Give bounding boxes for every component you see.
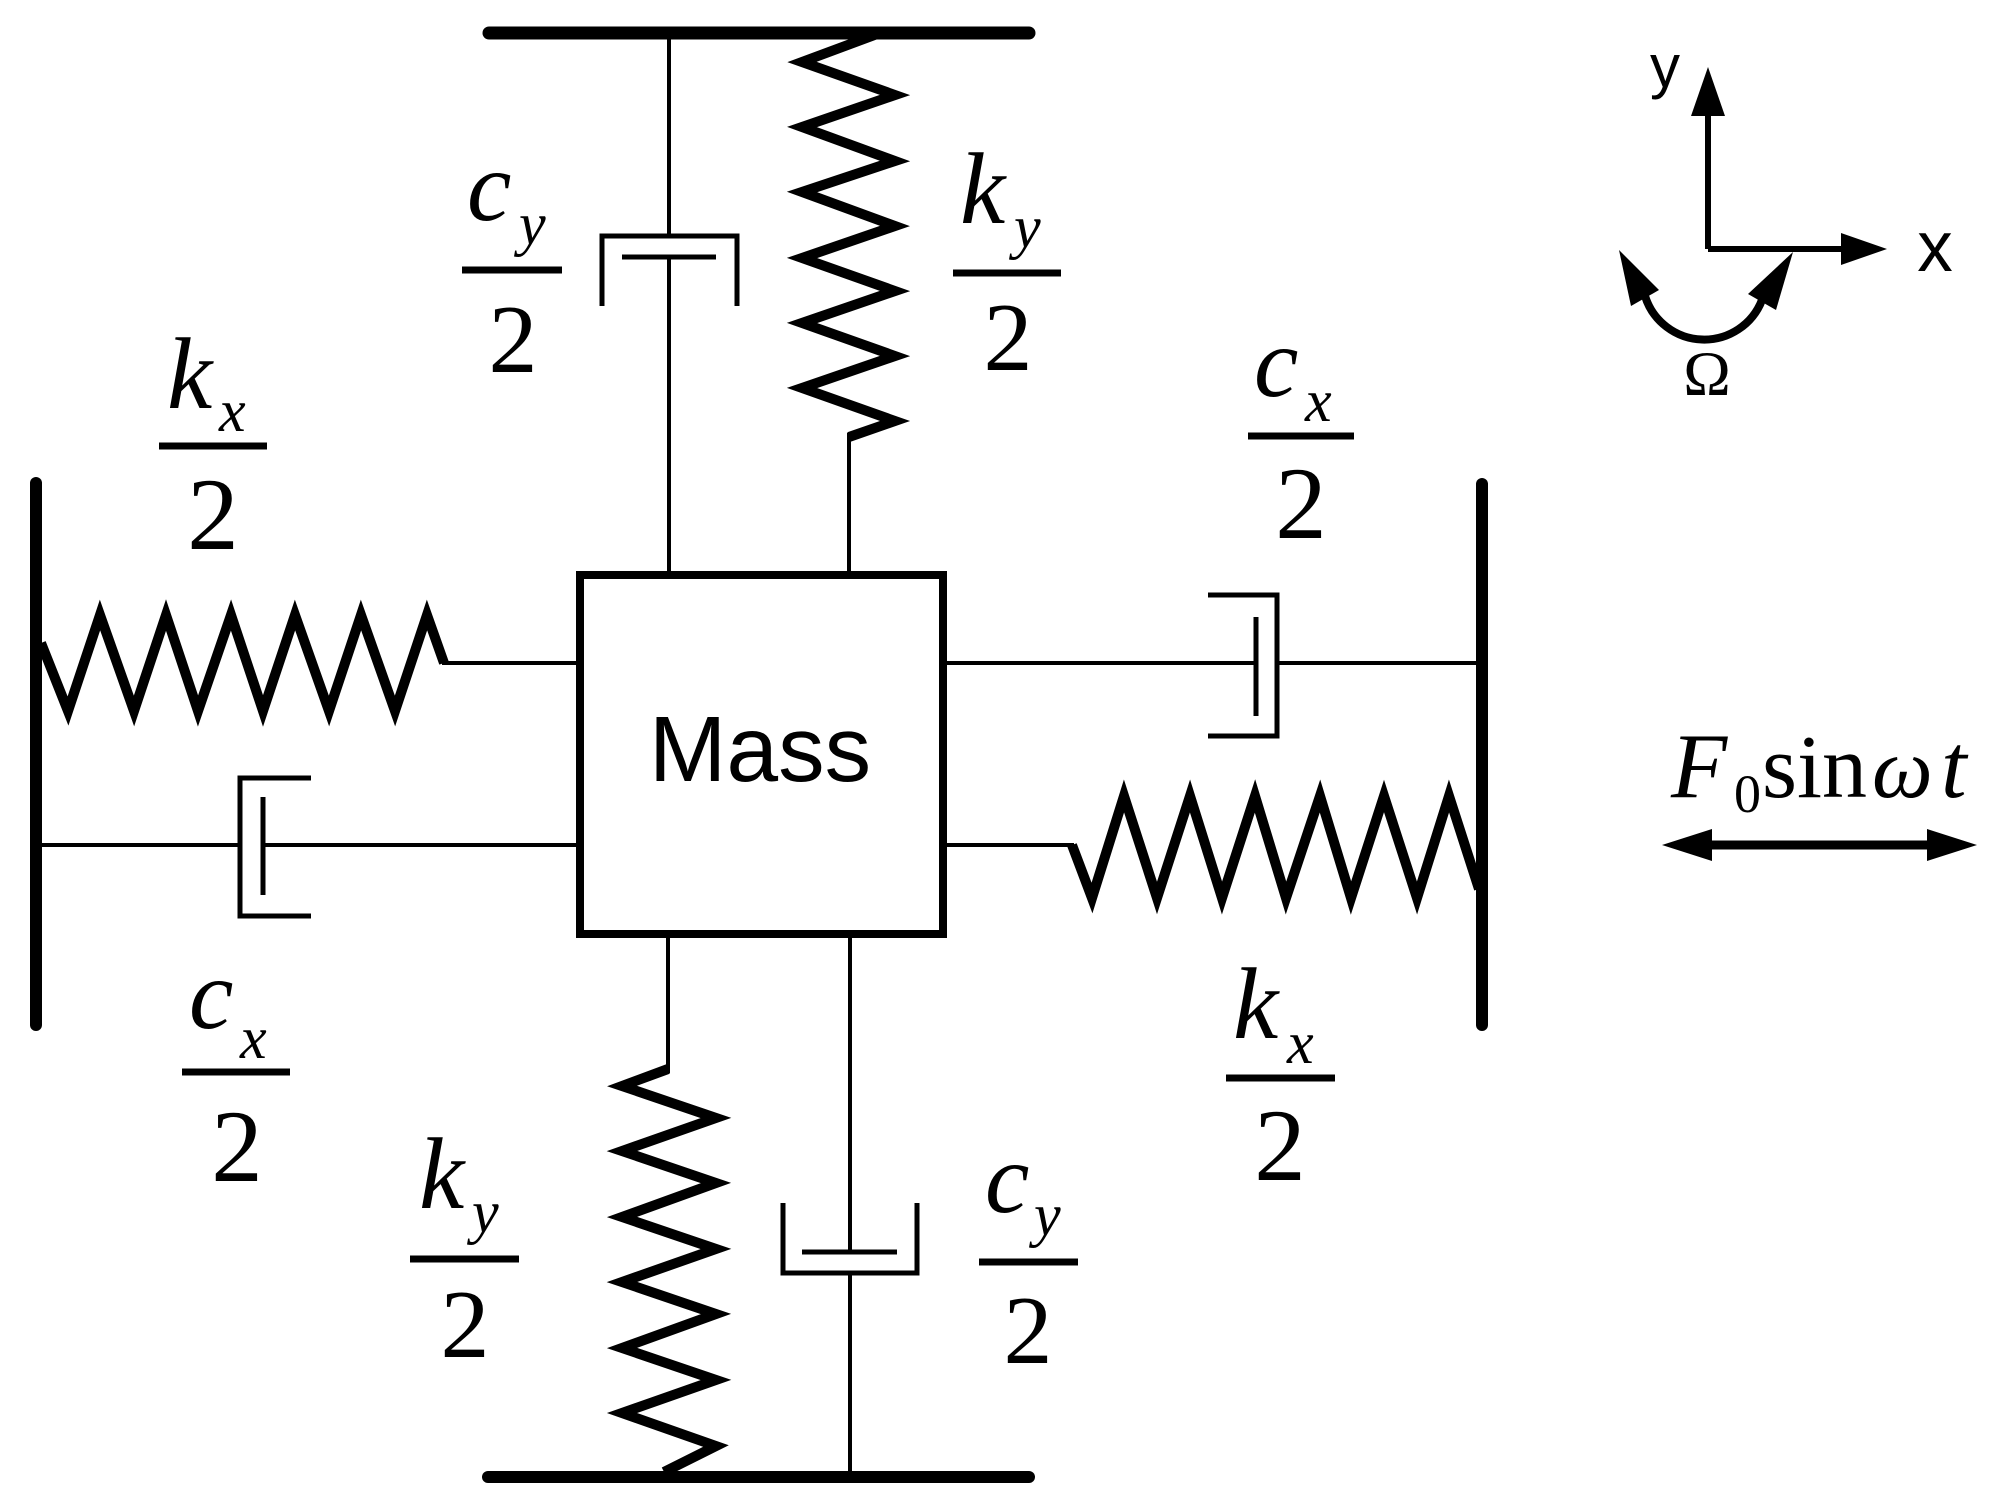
- wire: top wall to damper Cy/2 cup: [667, 36, 671, 238]
- wire: damper C1 piston rod to mass: [667, 257, 671, 575]
- svg-text:c: c: [467, 131, 511, 242]
- axis y arrow: [1705, 112, 1711, 249]
- wire: spring K2 to mass: [442, 661, 580, 665]
- wire: spring K1 to mass: [847, 433, 851, 575]
- axis x arrow: [1708, 246, 1845, 252]
- label cx/2 bottom-left: fraction bar: [182, 1069, 290, 1076]
- svg-text:k: k: [1233, 948, 1280, 1061]
- label ky/2 bottom: fraction bar: [410, 1256, 519, 1263]
- svg-text:2: 2: [489, 286, 538, 394]
- wire: damper C2 piston to mass: [263, 843, 580, 847]
- damper C1 (cy/2 top) cup: [602, 236, 737, 306]
- damper C2 piston plate: [261, 797, 266, 895]
- svg-text:2: 2: [187, 458, 239, 572]
- spring K4 zigzag: [622, 1069, 716, 1472]
- svg-text:c: c: [985, 1123, 1029, 1234]
- svg-text:c: c: [189, 939, 233, 1050]
- damper C4 piston plate: [802, 1250, 897, 1255]
- svg-text:x: x: [1304, 368, 1332, 434]
- force double arrow: [1700, 841, 1940, 850]
- svg-text:k: k: [167, 318, 214, 431]
- svg-text:2: 2: [984, 284, 1033, 392]
- damper C1 piston plate: [622, 255, 716, 260]
- spring K3 zigzag: [1072, 796, 1479, 898]
- wire: left wall to damper C2 (cx/2 left) cup: [36, 843, 240, 847]
- damper C3 cup: [1208, 595, 1277, 736]
- damper C4 cup: [783, 1203, 917, 1273]
- svg-text:k: k: [419, 1118, 466, 1231]
- svg-text:Mass: Mass: [649, 697, 871, 801]
- wire: damper C3 cup to right wall: [1277, 661, 1480, 665]
- svg-text:2: 2: [1254, 1089, 1306, 1203]
- spring K2 (kx/2 left) zigzag: [41, 615, 444, 711]
- wire: mass to spring K3 (kx/2 right): [943, 843, 1074, 847]
- wire: mass to damper C4 (cy/2 bottom) piston: [848, 934, 852, 1252]
- wall bottom: [488, 1471, 1029, 1483]
- wire: mass to damper C3 (cx/2 right) piston: [943, 661, 1256, 665]
- wire: damper C4 cup to bottom wall: [848, 1273, 852, 1474]
- label cy/2 bottom-right: fraction bar: [979, 1259, 1078, 1266]
- svg-text:Ω: Ω: [1683, 338, 1731, 409]
- svg-text:y: y: [1650, 33, 1680, 100]
- label cy/2 top: fraction bar: [462, 267, 562, 274]
- wall top: [489, 27, 1029, 40]
- label cx/2 right-top: fraction bar: [1248, 433, 1354, 440]
- rotation arc omega: [1645, 296, 1762, 340]
- wire: mass to spring K4 (ky/2 bottom): [666, 934, 670, 1073]
- rotation arc right arrowhead: [1748, 252, 1793, 310]
- svg-text:k: k: [960, 133, 1007, 246]
- rotation arc left arrowhead: [1619, 250, 1659, 306]
- label kx/2 right-bottom: fraction bar: [1226, 1075, 1335, 1082]
- svg-text:x: x: [1286, 1010, 1314, 1076]
- svg-text:2: 2: [1004, 1277, 1053, 1385]
- wall right: [1476, 484, 1488, 1025]
- label kx/2 top-left: fraction bar: [159, 443, 267, 450]
- label ky/2 top: fraction bar: [953, 270, 1061, 277]
- damper C2 cup: [240, 778, 311, 916]
- wall left: [30, 483, 42, 1025]
- svg-text:2: 2: [211, 1090, 263, 1204]
- svg-text:x: x: [1917, 208, 1953, 287]
- svg-text:x: x: [218, 378, 246, 444]
- svg-text:x: x: [239, 1005, 267, 1071]
- svg-text:F0sinωt: F0sinωt: [1670, 715, 1969, 824]
- damper C3 piston plate: [1254, 617, 1259, 716]
- svg-text:2: 2: [1275, 447, 1327, 561]
- svg-text:c: c: [1254, 307, 1298, 418]
- mass box: [580, 575, 943, 934]
- spring K1 (ky/2 top) zigzag: [802, 33, 895, 437]
- svg-text:2: 2: [441, 1271, 490, 1379]
